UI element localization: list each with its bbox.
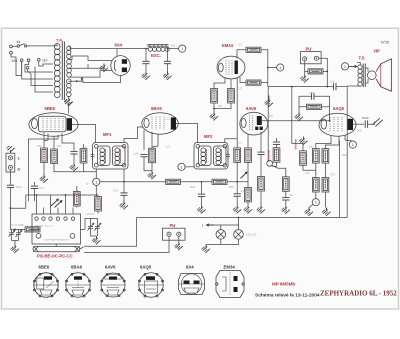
- MF2 trimmer top right: [223, 145, 227, 149]
- wire 6BE6 anode to MF1: [72, 125, 96, 143]
- wire TS to speaker bottom: [365, 79, 368, 83]
- svg-text:150: 150: [309, 145, 314, 149]
- ground PU: [300, 74, 308, 82]
- socket 6AQ5: [139, 273, 164, 297]
- trimmer cap right 2: [95, 221, 101, 234]
- 6BE6 grids dashed: [43, 118, 63, 131]
- ground padder: [11, 245, 19, 253]
- svg-text:10k: 10k: [218, 104, 223, 108]
- wire tap mid to primary: [25, 62, 53, 73]
- ground AVC filter: [197, 205, 205, 213]
- MF1 trimmer bottom left: [95, 163, 99, 167]
- cap 6AQ5 grid: [312, 93, 314, 100]
- 6AV6 diode plate 2: [260, 127, 263, 130]
- wire 6BA6 pin1: [151, 132, 153, 148]
- EM34 cathode: [218, 63, 223, 72]
- padder trimmer 1: [9, 229, 15, 240]
- heater tap arrow: [77, 78, 84, 81]
- wire 6BA6 pin2: [152, 134, 158, 147]
- junction volume audio: [291, 86, 293, 88]
- svg-text:6AQ5: 6AQ5: [333, 106, 345, 111]
- resistor PU load: [308, 69, 323, 74]
- ground bias 2: [322, 208, 330, 216]
- node 1 below 6AQ5: [349, 141, 356, 148]
- 6AQ5 cathode: [321, 119, 327, 129]
- resistor above gang: [73, 192, 80, 207]
- dial cross left: [34, 246, 39, 252]
- svg-text:50k: 50k: [37, 144, 42, 148]
- EM34 grid wires: [226, 61, 232, 75]
- wire lamps bottom: [206, 239, 239, 244]
- MF2 trimmer top left: [196, 145, 200, 149]
- 6AQ5 anode plate: [348, 119, 353, 130]
- svg-text:1n: 1n: [86, 182, 89, 186]
- 6BE6 anode plate: [67, 118, 72, 130]
- svg-text:T.S: T.S: [359, 56, 365, 61]
- wire g2 res down: [324, 163, 326, 177]
- cap diode filter: [273, 142, 280, 144]
- junction EM34 res: [213, 108, 215, 110]
- wire PU gnd stub: [304, 71, 306, 74]
- wire diode load 2 down: [272, 162, 276, 166]
- junction heater tap: [76, 80, 78, 82]
- chassis hatch tone: [372, 118, 382, 126]
- wire rectifier heater down: [83, 75, 121, 82]
- rectifier cathode: [114, 60, 116, 71]
- gang pin 2: [43, 208, 45, 215]
- gang terminal 2: [42, 217, 45, 220]
- svg-text:6X4: 6X4: [186, 265, 194, 270]
- wire choke to node: [169, 48, 179, 50]
- gang inner circle right: [70, 233, 75, 238]
- svg-text:PU: PU: [170, 223, 176, 228]
- wire heater winding bottom to ground: [68, 96, 70, 98]
- wire 6AV6 grid resistor: [236, 147, 238, 149]
- junction MF1 node bus: [95, 194, 97, 196]
- resistor below EM34 left: [211, 89, 218, 104]
- gang terminal 3: [49, 217, 52, 220]
- svg-text:1,2: 1,2: [238, 141, 242, 145]
- gang terminal 6: [71, 217, 74, 220]
- 6AV6 diode plate 1: [255, 127, 258, 130]
- mains terminal P1: [10, 45, 13, 48]
- filter cap C2 lead: [167, 49, 169, 61]
- wire diode res to pot: [247, 162, 249, 187]
- gang pin riser 3: [65, 195, 67, 208]
- resistor 6AQ5 screen: [322, 149, 329, 164]
- 6BE6 inner box: [39, 116, 67, 132]
- grid RC top right wire: [314, 96, 330, 121]
- speaker cone: [376, 59, 391, 91]
- bus AVC left: [26, 194, 98, 196]
- cap antenna: [7, 185, 14, 187]
- ground EM34 res: [210, 112, 218, 120]
- B+ bus to choke: [117, 48, 148, 50]
- wire MF1 decouple down: [123, 182, 125, 201]
- svg-text:Volume: Volume: [294, 139, 298, 150]
- wire res2 down right: [54, 164, 96, 172]
- svg-text:HP: HP: [374, 49, 380, 54]
- wire EM34 cathode gnd: [268, 96, 270, 99]
- junction riser 1: [36, 194, 38, 196]
- PU bottom box: [163, 228, 186, 240]
- socket 6X4: [179, 274, 205, 295]
- svg-text:270: 270: [330, 173, 335, 177]
- pot volume arrow: [241, 172, 247, 178]
- wire tone load cap: [285, 191, 287, 205]
- svg-text:PO-BE-OC-PC-CC: PO-BE-OC-PC-CC: [37, 254, 73, 259]
- MF2 primary coil box: [199, 146, 212, 166]
- svg-text:AC 11 465k: AC 11 465k: [10, 223, 24, 227]
- junction PU rail: [326, 71, 328, 73]
- wire 6AV6 pin diode: [247, 135, 249, 148]
- svg-text:6AV6: 6AV6: [246, 106, 257, 111]
- AVC bus right: [227, 181, 248, 183]
- MF1 primary coil: [100, 148, 105, 153]
- tap terminal low: [26, 67, 29, 70]
- svg-text:Int: Int: [17, 40, 21, 44]
- resistor Rb EM34: [246, 80, 261, 85]
- switch Int: [12, 44, 26, 48]
- antenna symbol left: [7, 146, 15, 153]
- antenna symbol above 6BE6: [64, 99, 72, 106]
- terminal box TA left: [6, 153, 15, 172]
- MF1 trimmer bottom right: [122, 163, 126, 167]
- choke EXC winding: [148, 47, 169, 51]
- audio bus right segment: [336, 86, 347, 88]
- speaker magnet circle: [368, 71, 377, 80]
- dial cross right: [75, 246, 80, 252]
- tap terminal mid: [27, 59, 30, 62]
- resistor tone: [258, 177, 265, 192]
- MF1 trimmer top left: [95, 145, 99, 149]
- ground cap pad: [70, 163, 78, 171]
- ground AVC cap: [233, 205, 241, 213]
- wire PU left down: [305, 61, 308, 72]
- grid RC left wire: [299, 96, 312, 107]
- PU bottom terminal 1: [167, 232, 171, 236]
- ground 6BA6 cathode: [148, 171, 156, 179]
- resistor stack A: [300, 151, 307, 166]
- tuning block box: [32, 214, 81, 244]
- 6AV6 anode plate: [257, 116, 262, 125]
- wire 6BE6 pin5: [62, 133, 74, 151]
- wire CT to ground: [88, 64, 104, 69]
- svg-text:PU: PU: [306, 46, 312, 51]
- wire EM34 grid line down: [236, 78, 238, 139]
- wire tone feed: [267, 87, 269, 161]
- tube 6AV6 envelope: [240, 112, 268, 135]
- svg-text:1,3: 1,3: [166, 145, 170, 149]
- svg-text:245: 245: [12, 59, 18, 63]
- tap terminal 245: [20, 59, 23, 62]
- cap MF2 side right: [226, 151, 230, 160]
- svg-text:220: 220: [171, 43, 176, 47]
- wire 6AQ5 pin node: [345, 135, 353, 141]
- output transformer TS winding: [358, 65, 362, 87]
- output transformer TS core: [363, 64, 365, 88]
- resistor 6AQ5 grid: [307, 104, 322, 109]
- ground heater winding: [64, 98, 72, 106]
- svg-text:0,1: 0,1: [241, 189, 245, 193]
- MF1 primary coil box: [98, 146, 111, 166]
- resistor 6AV6 diode load: [245, 148, 252, 163]
- PU jack terminal 2: [314, 56, 318, 60]
- svg-text:6BE6: 6BE6: [39, 265, 50, 270]
- transformer TA heater winding: [67, 79, 72, 97]
- choke EXC core: [148, 44, 169, 46]
- wire tap low to primary: [28, 69, 53, 85]
- dial link: [56, 244, 83, 249]
- node 1 TS: [341, 63, 348, 70]
- transformer TA rectifier filament winding: [67, 46, 71, 58]
- cap AVC filter: [198, 194, 205, 196]
- svg-text:20k: 20k: [57, 144, 62, 148]
- wire resistor right down: [214, 103, 231, 109]
- dial lamp 2: [234, 230, 244, 240]
- ground 6BE6 res: [40, 175, 48, 183]
- MF1 secondary coil box: [113, 146, 126, 166]
- wire PU right loop: [319, 58, 328, 86]
- wire AVC cap: [236, 182, 238, 205]
- junction B+ at cap2: [167, 48, 169, 50]
- wire lamp feed from heater bus: [238, 218, 240, 226]
- IF transformer MF1 box: [93, 143, 129, 170]
- gang pin 3: [50, 208, 52, 215]
- resistor 6BA6 cathode: [149, 148, 156, 163]
- resistor Ra EM34: [246, 47, 261, 52]
- transformer TA HV winding: [67, 59, 72, 77]
- wire RC to ground: [298, 107, 300, 113]
- wire resistor to gang box: [32, 228, 40, 230]
- wire node to MF2: [185, 166, 194, 168]
- tap terminal 110: [38, 59, 41, 62]
- svg-text:6X4: 6X4: [115, 42, 123, 47]
- 6AV6 grid dashed: [250, 116, 253, 132]
- pickup jack box PU: [301, 52, 322, 64]
- resistor below EM34 right: [228, 89, 235, 104]
- socket 6BE6: [34, 273, 59, 297]
- svg-text:7n5: 7n5: [82, 145, 87, 149]
- svg-text:2,5: 2,5: [238, 87, 242, 91]
- wire heater winding tap: [68, 80, 76, 82]
- svg-text:10nF: 10nF: [362, 116, 369, 120]
- svg-text:A: A: [17, 166, 20, 171]
- svg-text:f: f: [202, 224, 203, 228]
- wire screen res stubs: [83, 144, 85, 172]
- wire stack A bottom: [303, 165, 316, 170]
- filter cap C1 lead: [145, 49, 147, 61]
- junction antenna lead: [10, 207, 12, 209]
- wire grid res to AVC bus: [236, 162, 238, 181]
- MF2 secondary coil box: [214, 146, 227, 166]
- svg-text:+ PO BO: + PO BO: [85, 213, 95, 216]
- 6BA6 grids dashed: [152, 117, 164, 131]
- junction B+ at cap1: [145, 48, 147, 50]
- ground stack top: [299, 137, 307, 145]
- svg-text:0,5: 0,5: [309, 91, 313, 95]
- wire PU bottom left: [84, 236, 169, 252]
- MF2 trimmer bottom right: [223, 163, 227, 167]
- cap tone 10nF: [365, 121, 367, 128]
- wire 6BE6 pin3: [53, 136, 55, 149]
- wire primary top lead: [53, 44, 57, 46]
- junction padder: [14, 229, 16, 231]
- terminal T: [8, 156, 12, 160]
- rectifier tube 6X4 envelope: [111, 56, 130, 76]
- wire 6BA6 anode to MF2: [176, 124, 198, 143]
- MF2 secondary coil: [216, 148, 221, 153]
- tone pot circle: [267, 161, 273, 167]
- cap 6BE6 pad: [70, 152, 77, 154]
- tube 6AQ5 envelope: [319, 113, 356, 136]
- 6BA6 anode plate: [171, 117, 176, 129]
- wire tap 245 to primary: [22, 62, 53, 80]
- svg-text:6AQ5: 6AQ5: [140, 265, 152, 270]
- transformer TA core: [62, 42, 64, 101]
- 6AQ5 grids dashed: [330, 117, 342, 132]
- svg-text:3,5: 3,5: [238, 43, 242, 47]
- svg-text:115: 115: [269, 114, 274, 118]
- wire TS bottom to rail: [347, 86, 360, 218]
- svg-text:MF2: MF2: [204, 134, 213, 139]
- wire 470 stubs: [97, 195, 99, 214]
- wire EM34 top to resistor Ra: [237, 50, 246, 59]
- wire 6AV6 anode right: [262, 120, 330, 122]
- svg-text:EM34: EM34: [222, 43, 234, 48]
- transformer TA primary winding: [54, 44, 60, 98]
- wire cap bypass down: [144, 157, 152, 171]
- node 1 below MF1: [93, 178, 100, 185]
- ground filter cap C1: [142, 72, 150, 80]
- ground volume pot: [244, 205, 252, 213]
- ground trimmers: [92, 236, 100, 244]
- bus heater: [137, 217, 348, 219]
- wire 6BA6 pin3: [143, 130, 145, 150]
- cap osc line: [31, 186, 38, 188]
- resistor volume pot: [245, 187, 252, 202]
- wire tone pot to res: [272, 165, 286, 177]
- wire resistor left down: [213, 103, 215, 112]
- svg-text:0,1: 0,1: [166, 117, 170, 121]
- junction riser 3: [65, 194, 67, 196]
- svg-text:6BA6: 6BA6: [151, 106, 162, 111]
- wire Rb to tube: [240, 77, 246, 83]
- gang pin 6: [72, 208, 74, 215]
- cap tone load: [282, 198, 289, 200]
- EM34 target plate: [235, 61, 238, 75]
- trimmer cap right 1: [88, 221, 94, 234]
- resistor 6AV6 grid: [234, 148, 241, 163]
- wire bias2 gnd: [324, 192, 326, 208]
- node 1 EM34: [277, 64, 284, 71]
- gang pin riser 2: [50, 195, 52, 208]
- resistor diode load 2: [273, 148, 280, 163]
- wire trimmers gnd: [91, 234, 98, 237]
- wire 6AV6 pin cap: [260, 132, 262, 152]
- wire stack A top: [292, 144, 303, 151]
- IF transformer MF2 box: [194, 143, 228, 170]
- ground HV center tap: [100, 64, 108, 72]
- rectifier anode plate 2: [122, 68, 127, 73]
- wire MF1 secondary to 6BA6: [124, 127, 143, 143]
- wire osc cap: [34, 182, 36, 201]
- socket 6AV6: [101, 273, 125, 297]
- arrow node to TS: [349, 65, 357, 67]
- speaker cone back: [380, 64, 382, 87]
- wire padder join: [12, 241, 19, 245]
- node 1 output B+: [179, 45, 186, 52]
- wire mains P2 drop: [11, 54, 22, 75]
- MF2 trimmer bottom left: [196, 163, 200, 167]
- magic eye tube EM34 envelope: [217, 56, 245, 79]
- antenna coil lead: [11, 195, 26, 208]
- wire MF2 secondary to 6AV6 grid: [225, 139, 237, 148]
- gang pin riser 1: [36, 195, 38, 208]
- gang terminal 1: [35, 217, 38, 220]
- tube 6BE6 envelope: [29, 113, 78, 137]
- heater bus elbow to gang: [84, 218, 137, 247]
- svg-text:6BE6: 6BE6: [45, 106, 56, 111]
- svg-text:1M5: 1M5: [229, 185, 235, 189]
- gang pin 5: [65, 208, 67, 215]
- wire tone res ground: [260, 191, 262, 205]
- arrow lamps feed: [207, 224, 214, 226]
- terminal A: [8, 165, 12, 169]
- wire TS top bend: [357, 63, 360, 65]
- PU jack terminal 1: [303, 57, 307, 61]
- wire A down: [10, 170, 12, 185]
- wire filament winding to B+ bus: [68, 46, 117, 49]
- gang pin 1: [36, 208, 38, 215]
- ground MF1 decouple: [120, 201, 128, 209]
- wire 6BE6 pin2: [44, 134, 48, 142]
- svg-text:CA 6A2 2%1 5+T: CA 6A2 2%1 5+T: [35, 225, 54, 228]
- cap 6BA6 bypass: [140, 154, 147, 156]
- wire 6AQ5 anode right: [353, 123, 364, 125]
- wire rectifier cathode to B+ bus: [116, 49, 118, 56]
- svg-text:2n2: 2n2: [39, 186, 44, 190]
- wire coupling cap down: [260, 155, 262, 177]
- svg-text:5n7: 5n7: [114, 189, 119, 193]
- wire bias1 to node: [315, 192, 317, 199]
- wire rail to node: [268, 68, 277, 87]
- AVC bus y182: [100, 181, 166, 183]
- resistor 6BE6 osc: [51, 149, 58, 164]
- junction anode RC: [329, 120, 331, 122]
- svg-text:6BA6: 6BA6: [71, 265, 83, 270]
- series cap audio bus: [334, 83, 336, 90]
- mains terminal P2: [10, 51, 13, 54]
- svg-text:MF1: MF1: [103, 132, 112, 137]
- audio bus left segment: [268, 86, 334, 88]
- svg-text:6AV6: 6AV6: [105, 265, 116, 270]
- svg-text:25µF: 25µF: [342, 153, 349, 157]
- wire tap 110 to primary: [39, 61, 53, 66]
- cap MF1 side left: [91, 151, 95, 160]
- wire extra tap to primary bottom: [35, 67, 53, 93]
- svg-text:N°25: N°25: [381, 40, 389, 44]
- ground PU bottom: [174, 242, 182, 250]
- MF2 primary coil: [201, 148, 206, 153]
- wire AVC filter cap: [201, 182, 203, 205]
- wire HV top to rectifier anode: [69, 56, 112, 61]
- svg-text:6,3V 0,3A: 6,3V 0,3A: [246, 233, 257, 236]
- wire trimmers top: [81, 219, 98, 230]
- tuning arrows: [51, 199, 62, 207]
- wire 6BA6 cathode res down: [151, 163, 153, 171]
- grid RC right wire: [322, 106, 330, 108]
